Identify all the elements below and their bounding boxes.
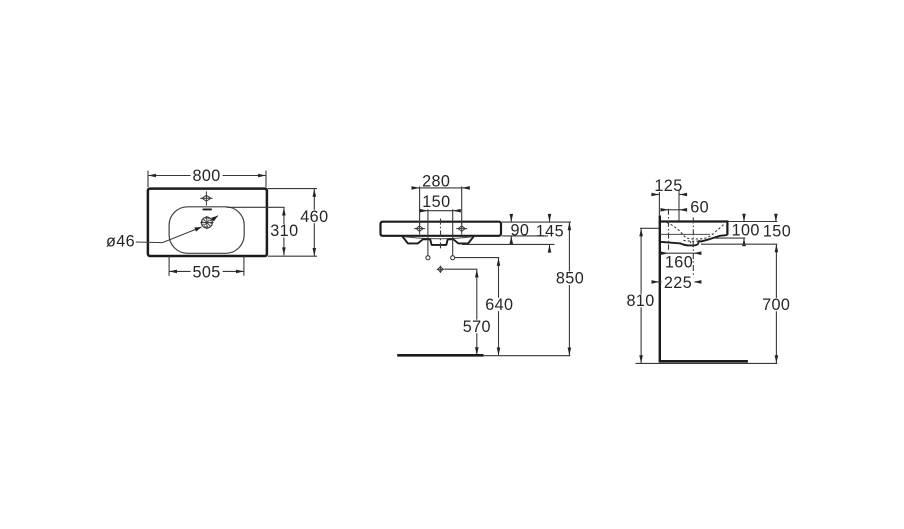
hidden bowl outline (dashed) <box>667 223 725 239</box>
basin bowl (rounded inner shape) <box>169 207 244 254</box>
extension line wall plane <box>658 192 660 215</box>
dimension 640 line <box>498 258 500 356</box>
dimension 700 line <box>775 244 777 363</box>
dimension 460 line <box>313 189 315 256</box>
dimension 60 line and arrows <box>669 209 680 211</box>
extension line 150 bottom <box>701 243 777 245</box>
svg-text:810: 810 <box>626 292 654 310</box>
bowl silhouette sag arc <box>403 237 474 239</box>
leader arrow continuation NE of drain <box>212 216 218 221</box>
extension line tap hole plane <box>678 191 680 221</box>
svg-text:145: 145 <box>536 223 564 241</box>
top extension line (deck level, side) <box>728 221 778 223</box>
floor line thick segment <box>397 354 483 357</box>
svg-text:570: 570 <box>463 318 491 336</box>
interior shelf line <box>660 233 710 235</box>
extension line 100 bottom <box>714 237 745 239</box>
extension line 810 top <box>640 227 659 229</box>
svg-text:225: 225 <box>664 274 692 292</box>
tap axis centreline <box>668 209 670 250</box>
hidden bowl bottom (dashed) <box>684 239 700 242</box>
siphon outlet marker <box>437 266 444 273</box>
extension from siphon marker to 570 dimension <box>444 268 477 270</box>
dimension 310 extension line <box>227 206 285 208</box>
floor thick segment <box>659 360 748 363</box>
hidden drain hole (dashed) <box>690 241 692 245</box>
svg-text:310: 310 <box>270 222 298 240</box>
svg-text:640: 640 <box>485 296 513 314</box>
svg-text:150: 150 <box>422 193 450 211</box>
tap hole marker right <box>456 223 467 234</box>
dimension 800 line <box>148 175 266 177</box>
svg-text:100: 100 <box>732 221 760 239</box>
extension from bolt hole to 640 dimension <box>455 257 499 259</box>
svg-text:850: 850 <box>556 270 584 288</box>
svg-text:800: 800 <box>192 167 220 185</box>
svg-text:90: 90 <box>510 221 529 239</box>
svg-text:700: 700 <box>762 296 790 314</box>
vertical centreline <box>440 219 442 249</box>
floor line thin segment <box>484 355 571 357</box>
svg-text:160: 160 <box>665 253 693 271</box>
extension line foot bottom <box>462 243 555 245</box>
svg-text:505: 505 <box>192 264 220 282</box>
dimension 160 line and arrows <box>669 252 694 254</box>
dimension 280 line and outside arrows <box>420 187 462 189</box>
dimension 225 line and arrows <box>660 281 694 283</box>
dimension 505 extension lines <box>168 256 170 276</box>
dimension 145 arrows <box>549 214 551 222</box>
dimension 125 arrows <box>652 194 660 196</box>
basin outer rim (plan view rectangle) <box>148 189 267 256</box>
dimension 505 line <box>169 270 244 272</box>
dimension 460 extension lines <box>268 188 317 190</box>
dimension 150 extension lines <box>427 209 429 255</box>
underside foot profile <box>402 236 474 245</box>
tap hole marker left <box>414 223 425 234</box>
dimension 100 arrows <box>743 214 745 222</box>
dimension 310 line <box>283 208 285 256</box>
dimension 800 extension lines <box>147 171 149 188</box>
tap hole position marker <box>200 191 212 205</box>
svg-text:280: 280 <box>422 172 450 190</box>
leader line from ø46 label to drain <box>136 227 202 243</box>
dimension 810 line <box>640 229 642 364</box>
svg-text:ø46: ø46 <box>106 233 135 251</box>
dimension 850 line <box>568 222 570 355</box>
svg-text:60: 60 <box>690 199 709 217</box>
svg-text:460: 460 <box>300 208 328 226</box>
wall line <box>659 215 661 361</box>
dimension 570 line <box>476 270 478 356</box>
basin deck and front edge (side view) <box>659 222 728 235</box>
extension line deck bottom <box>502 235 548 237</box>
top extension line (deck level) <box>502 221 571 223</box>
svg-text:150: 150 <box>763 222 791 240</box>
dimension 150 line and outside arrows <box>428 210 453 212</box>
svg-text:125: 125 <box>654 177 682 195</box>
dimension 280 extension lines <box>419 186 421 224</box>
drain axis centreline <box>692 217 694 278</box>
overflow slot <box>202 209 212 211</box>
fixing bolt hole right <box>451 256 455 260</box>
dimension 150 top arrow <box>775 214 777 222</box>
dimension 90 arrows <box>510 214 512 222</box>
basin deck (front view bar) <box>381 222 502 236</box>
floor thin baseline <box>636 362 778 364</box>
drain hole ø46 <box>200 216 213 229</box>
fixing bolt hole left <box>426 256 430 260</box>
basin underside profile <box>660 235 727 245</box>
